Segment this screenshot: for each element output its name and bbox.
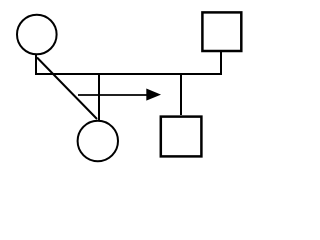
wire: vertical drop to daughter circle [98, 73, 100, 120]
arrowhead [146, 89, 161, 101]
wire: vertical drop to son square [180, 73, 182, 115]
arrow shaft [78, 94, 148, 96]
wire: vertical from mother circle down to marriage line [35, 54, 37, 74]
mother circle (top-left) [17, 15, 57, 55]
wire: vertical from father square down to marriage line [220, 52, 222, 74]
wire: diagonal from mother to daughter circle [37, 58, 97, 120]
father square (top-right) [202, 12, 241, 51]
son square (bottom) [161, 117, 202, 157]
wire: marriage horizontal line [35, 73, 222, 75]
daughter circle (bottom) [78, 121, 118, 161]
